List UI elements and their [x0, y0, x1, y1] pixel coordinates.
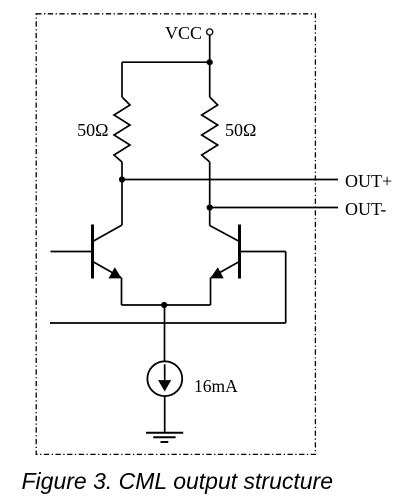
svg-text:OUT-: OUT-	[345, 199, 386, 219]
svg-text:16mA: 16mA	[194, 376, 238, 396]
svg-text:50Ω: 50Ω	[225, 120, 256, 140]
svg-text:OUT+: OUT+	[345, 171, 392, 191]
svg-text:50Ω: 50Ω	[77, 120, 108, 140]
svg-text:VCC: VCC	[165, 23, 202, 43]
